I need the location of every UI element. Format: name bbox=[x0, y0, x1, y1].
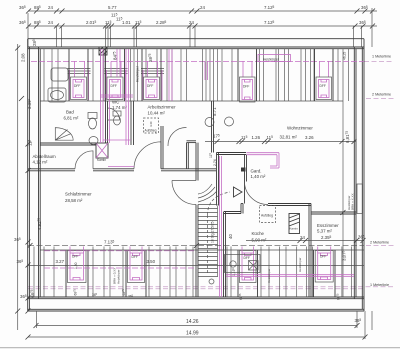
bottom outer wall double bbox=[28, 308, 364, 310]
svg-text:Heizkörper: Heizkörper bbox=[136, 65, 140, 82]
right wall doubles bbox=[353, 47, 355, 299]
dim line row1 bbox=[26, 9, 377, 14]
svg-text:Küche: Küche bbox=[252, 231, 265, 236]
kamin 1 bbox=[96, 143, 108, 162]
gard left wall bbox=[245, 155, 247, 182]
svg-text:2.08: 2.08 bbox=[21, 53, 26, 62]
svg-text:32,81 m²: 32,81 m² bbox=[280, 135, 298, 140]
top wall double bbox=[28, 46, 364, 48]
svg-text:28,58 m²: 28,58 m² bbox=[65, 198, 83, 203]
svg-text:5.71: 5.71 bbox=[212, 107, 217, 116]
window W4 bbox=[238, 49, 257, 102]
extra band verticals bbox=[203, 49, 207, 101]
svg-text:1.01: 1.01 bbox=[122, 20, 131, 25]
pink horizontals wc bbox=[101, 95, 135, 167]
svg-text:Kamin: Kamin bbox=[290, 227, 299, 231]
shower corner bad bbox=[55, 128, 73, 141]
svg-text:Heizkörper: Heizkörper bbox=[267, 268, 271, 283]
dim labels row1 bbox=[19, 5, 368, 10]
hatched post top bbox=[99, 47, 107, 55]
door arc arbeitszimmer bbox=[168, 127, 187, 146]
wall arbeitszimmer right upper bbox=[212, 101, 214, 153]
niche wall vertical bbox=[187, 143, 189, 169]
svg-text:DFF: DFF bbox=[111, 84, 117, 88]
svg-text:46,25: 46,25 bbox=[343, 52, 347, 60]
dim extension drops bbox=[28, 8, 372, 47]
svg-text:DFF: DFF bbox=[74, 84, 80, 88]
kueche right wall bbox=[309, 204, 311, 298]
niche wall horizontal bbox=[187, 141, 197, 143]
shower tray top bbox=[48, 88, 66, 102]
svg-text:2 Meterlinie: 2 Meterlinie bbox=[370, 241, 389, 245]
svg-text:6,81 m²: 6,81 m² bbox=[64, 116, 79, 121]
bad door arc bbox=[108, 108, 120, 120]
svg-text:DFF: DFF bbox=[320, 84, 326, 88]
svg-text:Heizkörper: Heizkörper bbox=[263, 58, 280, 62]
band bottom line (2m) bbox=[40, 100, 343, 102]
radiator pipe lines under left windows bbox=[68, 69, 165, 74]
svg-text:3.50: 3.50 bbox=[147, 259, 156, 264]
svg-text:Heizkörper: Heizkörper bbox=[117, 269, 121, 284]
svg-text:14.99: 14.99 bbox=[186, 331, 199, 337]
svg-text:Aufstieg: Aufstieg bbox=[145, 129, 157, 133]
left chain vertical bbox=[17, 44, 19, 330]
svg-text:DFF: DFF bbox=[244, 256, 250, 260]
bottom extension verticals bbox=[37, 311, 366, 339]
schlafzimmer door arc bbox=[172, 181, 196, 205]
svg-text:1,50: 1,50 bbox=[74, 262, 78, 269]
wall Abstellraum bottom with door gap bbox=[28, 169, 216, 171]
schlafzimmer right wall bbox=[196, 169, 198, 297]
svg-text:Abstellraum: Abstellraum bbox=[33, 154, 57, 159]
svg-text:1,40 m²: 1,40 m² bbox=[251, 174, 266, 179]
svg-text:WC: WC bbox=[112, 100, 119, 105]
svg-text:5.77: 5.77 bbox=[108, 5, 117, 10]
pink window cell sides left windows bbox=[70, 70, 163, 100]
band rafter verticals bbox=[34, 247, 351, 298]
svg-text:Esszimmer: Esszimmer bbox=[317, 223, 339, 228]
svg-text:5,37 m²: 5,37 m² bbox=[317, 229, 332, 234]
svg-text:Gard.: Gard. bbox=[251, 169, 262, 174]
washbasin bad bbox=[89, 137, 98, 145]
stair direction triangle bbox=[234, 187, 243, 197]
pink pipe pair arbeitszimmer bbox=[205, 62, 208, 81]
pink verticals bad/wc bbox=[101, 49, 222, 297]
heating pipe dashed magenta top bbox=[31, 60, 364, 62]
aufstieg 2 dashed box bbox=[260, 206, 276, 223]
tick on knee line bbox=[341, 210, 346, 215]
bathtub in Bad top bbox=[51, 68, 68, 81]
wall Bad right / WC left bbox=[106, 101, 108, 143]
band top line bbox=[40, 249, 364, 251]
svg-text:Schlafzimmer: Schlafzimmer bbox=[65, 192, 92, 197]
right knee wall line bbox=[342, 49, 344, 297]
post at gard corner bbox=[241, 168, 246, 172]
svg-text:24: 24 bbox=[48, 5, 53, 10]
pink pipe pair right of W3 bbox=[169, 49, 172, 101]
radiator esszimmer right bbox=[347, 184, 363, 214]
meterlinie dashed lines bbox=[28, 61, 394, 288]
pink drops above windows bbox=[75, 61, 329, 77]
door arc corridor-Schlafzimmer wall bbox=[134, 142, 161, 169]
window W1 bbox=[69, 49, 88, 101]
svg-text:Heizkörper: Heizkörper bbox=[347, 195, 351, 210]
svg-text:24: 24 bbox=[300, 235, 305, 240]
heizkoerper pipe loop magenta bbox=[258, 55, 291, 62]
svg-text:10,44 m²: 10,44 m² bbox=[148, 111, 166, 116]
bottom knee wall line bbox=[28, 296, 364, 298]
svg-text:1 Meterlinie: 1 Meterlinie bbox=[372, 55, 391, 59]
svg-text:14.26: 14.26 bbox=[186, 319, 199, 325]
rafter verticals top band bbox=[44, 49, 349, 101]
svg-text:2.74: 2.74 bbox=[213, 159, 217, 166]
gard top wall black part bbox=[217, 153, 247, 155]
ceiling spots wohnzimmer bbox=[205, 118, 214, 127]
kueche entry step walls bbox=[224, 204, 244, 298]
svg-text:1 Meterlinie: 1 Meterlinie bbox=[370, 283, 389, 287]
left wall doubles bbox=[27, 39, 29, 311]
dim labels row2 bbox=[19, 12, 366, 25]
kueche top wall right segment bbox=[268, 204, 311, 206]
svg-text:24: 24 bbox=[200, 5, 205, 10]
bottom window B4 bbox=[314, 250, 336, 297]
svg-text:3.26: 3.26 bbox=[305, 135, 314, 140]
bottom window B2 bbox=[126, 250, 146, 297]
svg-text:24: 24 bbox=[189, 20, 194, 25]
svg-text:DFF: DFF bbox=[147, 84, 153, 88]
svg-text:Aufstieg: Aufstieg bbox=[261, 214, 273, 218]
svg-text:DFF: DFF bbox=[132, 255, 138, 259]
svg-text:1.26: 1.26 bbox=[252, 135, 261, 140]
svg-text:BRH + X.XX: BRH + X.XX bbox=[351, 193, 355, 210]
kamin 2 bbox=[289, 214, 300, 234]
pink stubs above bottom windows bbox=[70, 247, 331, 254]
svg-text:Kamin: Kamin bbox=[97, 158, 106, 162]
svg-text:24: 24 bbox=[48, 20, 53, 25]
esszimmer top wall bbox=[311, 212, 356, 214]
svg-text:DFF: DFF bbox=[72, 255, 78, 259]
left rotated labels bbox=[14, 39, 42, 299]
aufstieg 1 dashed box bbox=[144, 118, 159, 133]
wall WC right bbox=[131, 101, 134, 145]
dim line row2 bbox=[26, 24, 377, 29]
svg-text:2 Meterlinie: 2 Meterlinie bbox=[372, 93, 391, 97]
wall corridor right bbox=[161, 126, 163, 169]
svg-text:DFF: DFF bbox=[320, 255, 326, 259]
wall Bad bottom bbox=[40, 143, 96, 145]
niche right wall bbox=[196, 143, 198, 169]
bottom window B3 bbox=[238, 250, 258, 297]
svg-text:4,12 m²: 4,12 m² bbox=[33, 160, 48, 165]
pink bottom traces bbox=[44, 251, 354, 277]
toilet wc bbox=[113, 111, 121, 125]
scan edge bottom bbox=[0, 347, 400, 349]
toilet bad bbox=[88, 113, 97, 130]
door arc Abstellraum bbox=[75, 151, 93, 169]
svg-text:DFF: DFF bbox=[243, 85, 249, 89]
window W3 bbox=[142, 49, 161, 101]
svg-text:1,74 m²: 1,74 m² bbox=[112, 105, 127, 110]
left chain ticks bbox=[15, 46, 30, 314]
svg-text:Arbeitszimmer: Arbeitszimmer bbox=[148, 105, 177, 110]
svg-text:Wohnzimmer: Wohnzimmer bbox=[287, 126, 313, 131]
svg-text:Heizkörper: Heizkörper bbox=[298, 257, 302, 272]
svg-text:5,90 m²: 5,90 m² bbox=[252, 238, 267, 243]
gard pink walls bbox=[247, 153, 280, 168]
top eave line bbox=[28, 38, 364, 40]
window W5 bbox=[315, 49, 334, 101]
stairwell left wall bbox=[217, 153, 219, 206]
svg-text:Bad: Bad bbox=[66, 110, 74, 115]
gard door arc + leaf bbox=[245, 182, 269, 205]
svg-text:18 Stg 17,5/25: 18 Stg 17,5/25 bbox=[211, 221, 215, 243]
bottom window B1 bbox=[66, 250, 88, 297]
svg-text:40: 40 bbox=[228, 234, 233, 239]
svg-text:3.27: 3.27 bbox=[56, 259, 65, 264]
svg-text:4.40: 4.40 bbox=[149, 121, 153, 127]
window W2 bbox=[106, 49, 125, 101]
